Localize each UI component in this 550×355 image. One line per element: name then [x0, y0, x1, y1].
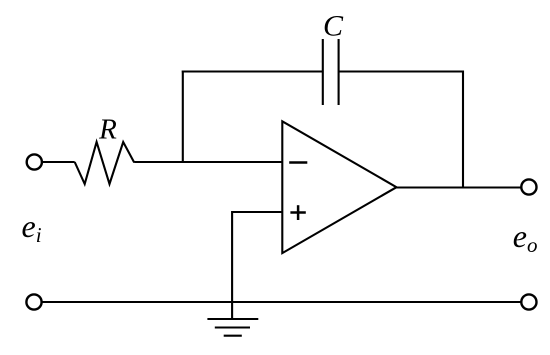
svg-text:R: R	[98, 114, 117, 146]
svg-text:C: C	[323, 10, 344, 43]
